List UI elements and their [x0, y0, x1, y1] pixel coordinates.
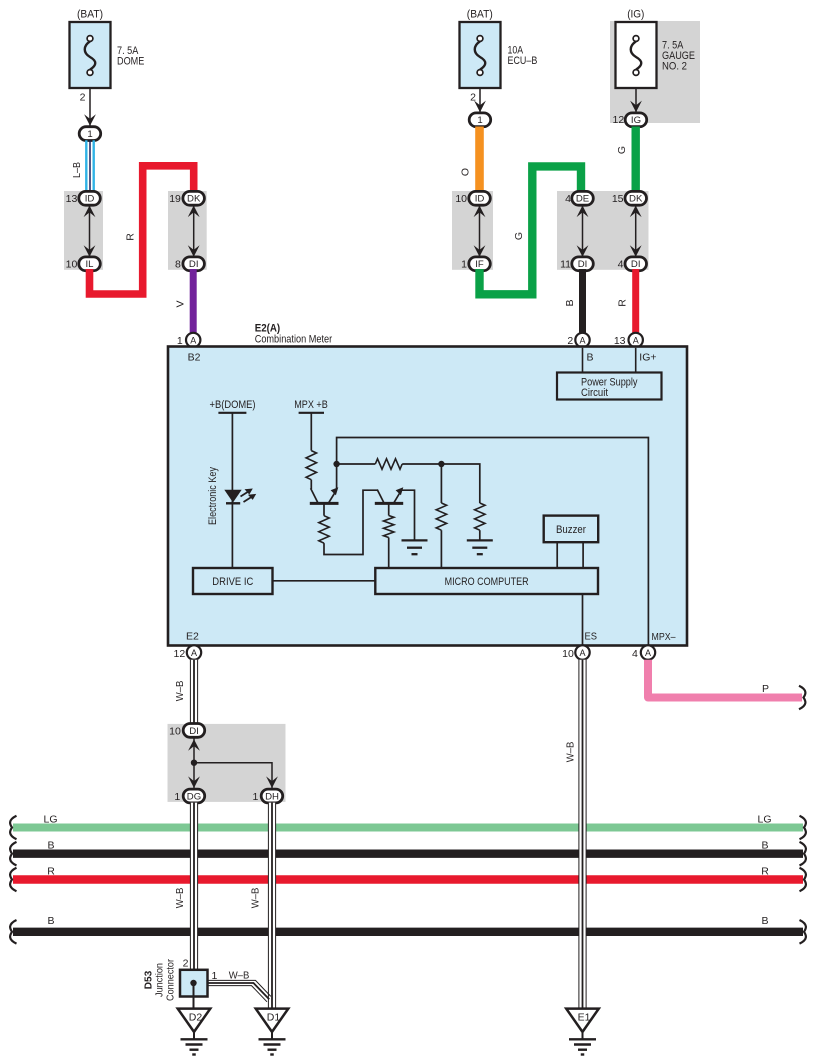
wire L-B from connector 1 to ID [71, 140, 94, 192]
svg-text:DE: DE [576, 194, 589, 205]
svg-text:R: R [125, 233, 137, 241]
wires buzzer to micro computer [557, 542, 583, 568]
svg-text:R: R [47, 865, 55, 877]
connector oval 1 (ECU-B circuit) [469, 113, 491, 127]
svg-text:DI: DI [631, 259, 641, 270]
wire ID to IL with arrows [84, 202, 96, 260]
power supply circuit box [557, 373, 662, 400]
arrow into connector 1 [474, 101, 486, 113]
transistor Q2 [375, 487, 404, 503]
connector ID pin 10 [455, 191, 490, 205]
wire V (violet) from DI to pin 1 [175, 269, 194, 334]
pin 10 A [562, 645, 590, 660]
wire DK to DI with arrows [630, 202, 642, 260]
svg-text:MICRO COMPUTER: MICRO COMPUTER [445, 576, 529, 588]
svg-text:A: A [579, 335, 585, 345]
connector oval IG pin 12 [613, 113, 647, 127]
node MPX +B [294, 399, 328, 413]
wire N1 up and right to MPX- (long) [337, 438, 649, 646]
wire P (pink) from pin 4 MPX- [648, 660, 805, 710]
svg-text:A: A [191, 648, 197, 658]
svg-text:R: R [617, 299, 629, 307]
svg-text:12: 12 [174, 648, 186, 660]
svg-text:(BAT): (BAT) [467, 9, 493, 21]
wire W-B from D53 pin 1 to D1 [208, 969, 271, 1002]
svg-text:2: 2 [183, 958, 189, 970]
bus wire B (upper) [10, 839, 806, 865]
svg-text:B: B [587, 351, 594, 363]
ground E1 [566, 1009, 599, 1055]
svg-text:Combination Meter: Combination Meter [255, 334, 333, 346]
connector DE pin 4 [565, 191, 593, 205]
svg-text:A: A [190, 335, 196, 345]
wire D53 to D2 ground [193, 983, 195, 1009]
wire dot to DH with arrow [194, 763, 278, 789]
svg-text:D2: D2 [189, 1012, 203, 1024]
wire fuse to connector 1 [479, 88, 481, 113]
connector DI pin 4 [618, 257, 647, 271]
wire B (black) from DI to pin 2 [564, 269, 583, 334]
svg-text:B: B [47, 915, 54, 927]
wire G (green) from IF to DE [480, 166, 582, 294]
wire W-B from pin 10 ES to E1 ground [565, 660, 587, 1009]
junction block DE/DI DK/DI (gray) [557, 191, 649, 270]
transistor Q1 [310, 480, 339, 504]
wire R (red) from IL to DK [90, 166, 194, 294]
svg-text:E1: E1 [578, 1012, 591, 1024]
svg-text:DRIVE IC: DRIVE IC [212, 576, 253, 588]
wire O (orange) from connector 1 to ID [460, 127, 480, 193]
arrow into connector 1 [84, 114, 96, 126]
svg-text:A: A [633, 335, 639, 345]
connector DK pin 19 [169, 191, 204, 205]
svg-text:1: 1 [87, 129, 92, 140]
svg-text:(BAT): (BAT) [77, 9, 103, 21]
svg-text:Buzzer: Buzzer [556, 524, 586, 536]
ground D1 [256, 1009, 289, 1055]
wire dot to DG with arrow [188, 763, 200, 789]
wire drive IC to micro computer [273, 580, 376, 582]
wire R6 to micro computer [388, 538, 390, 569]
svg-text:L–B: L–B [71, 162, 83, 178]
ground D2 [178, 1009, 211, 1055]
svg-text:LG: LG [757, 813, 771, 825]
pin 1 A of combination meter [177, 333, 201, 347]
pin 13 A of combination meter [614, 333, 643, 347]
wire R3 to micro computer [440, 530, 442, 568]
resistor R5 (Q1 base) [319, 503, 329, 543]
connector DH pin 1 [252, 789, 282, 803]
connector IL pin 10 [66, 257, 101, 271]
resistor R1 [306, 451, 316, 480]
wire N2 to right resistor R4 [441, 464, 479, 503]
resistor R2 [375, 459, 402, 469]
connector DG pin 1 [174, 789, 204, 803]
svg-text:4: 4 [632, 648, 638, 660]
wire N1 to resistor R2 [337, 463, 376, 465]
gray block behind GAUGE fuse [610, 21, 700, 123]
svg-text:W–B: W–B [174, 888, 186, 909]
wire fuse to connector 1 [89, 88, 91, 127]
svg-text:4: 4 [565, 193, 571, 205]
svg-text:10: 10 [562, 648, 574, 660]
svg-text:12: 12 [613, 114, 625, 126]
LED electronic key indicator [207, 466, 256, 525]
svg-text:R: R [761, 865, 769, 877]
wire Q1 emitter to node N1 [336, 464, 338, 490]
connector DK pin 15 [612, 191, 647, 205]
resistor R3 [436, 503, 446, 530]
wire N2 down to R3 [440, 464, 442, 503]
pin 12 A [174, 645, 202, 660]
connector oval 1 (DOME circuit) [79, 127, 101, 141]
svg-text:B: B [47, 839, 54, 851]
svg-text:E2(A): E2(A) [255, 322, 281, 334]
node N1 junction [333, 461, 339, 467]
svg-text:W–B: W–B [174, 681, 186, 702]
svg-text:DI: DI [189, 259, 199, 270]
fuse 7.5A GAUGE NO.2 (IG) [616, 9, 696, 89]
junction dot D [191, 760, 197, 766]
svg-text:4: 4 [618, 258, 624, 270]
svg-text:A: A [579, 648, 585, 658]
svg-text:ID: ID [85, 194, 95, 205]
wire W-B from pin 12 to DI [174, 660, 198, 725]
wire R (red) from DI to pin 13 [617, 269, 636, 334]
wire MPX+B to resistor [310, 413, 312, 451]
svg-text:NO. 2: NO. 2 [662, 61, 687, 73]
svg-text:LG: LG [43, 813, 57, 825]
wire DE to DI with arrows [577, 202, 589, 260]
svg-text:E2: E2 [186, 630, 199, 642]
ground (internal, left) [402, 540, 428, 554]
svg-text:B2: B2 [188, 351, 201, 363]
svg-text:DI: DI [189, 726, 199, 737]
svg-text:B: B [761, 915, 768, 927]
svg-text:B: B [564, 299, 576, 306]
svg-text:DG: DG [187, 791, 201, 802]
svg-text:DK: DK [629, 194, 643, 205]
svg-text:2: 2 [80, 91, 86, 103]
svg-text:1: 1 [477, 115, 482, 126]
drive IC U1 [193, 568, 273, 594]
wire micro computer to pin ES [582, 594, 584, 645]
wire G (green) from IG to DK [616, 127, 636, 193]
svg-text:(IG): (IG) [627, 9, 644, 21]
node +B(DOME) [210, 399, 256, 413]
svg-text:IG: IG [631, 115, 641, 126]
buzzer [544, 516, 599, 543]
svg-text:DH: DH [265, 791, 279, 802]
svg-text:11: 11 [560, 258, 571, 270]
svg-text:13: 13 [66, 193, 78, 205]
wire Q2 emitter to ground [402, 490, 415, 540]
svg-text:15: 15 [612, 193, 624, 205]
node N2 junction [438, 461, 444, 467]
svg-text:10: 10 [169, 725, 181, 737]
svg-text:ECU–B: ECU–B [508, 55, 538, 67]
wire +B(DOME) to DRIVE IC [231, 413, 233, 568]
wire R4 to ground [479, 530, 481, 540]
svg-text:O: O [460, 168, 472, 176]
wire W-B from DG to D53 [174, 803, 198, 970]
svg-text:W–B: W–B [565, 742, 577, 763]
svg-text:MPX–: MPX– [652, 631, 676, 643]
wire pin2 to power supply [582, 348, 584, 373]
micro computer U2 [375, 568, 598, 594]
svg-text:IG+: IG+ [639, 351, 656, 363]
svg-text:B: B [761, 839, 768, 851]
connector DI pin 11 [560, 257, 593, 271]
svg-text:1: 1 [461, 258, 467, 270]
svg-text:IL: IL [85, 259, 94, 270]
connector DI pin 8 [175, 257, 204, 271]
wire W-B from DH to D1 ground [250, 803, 276, 1009]
bus wire B (lower) [10, 915, 806, 943]
wire fuse to connector IG [635, 88, 637, 113]
bus wire LG [10, 813, 806, 839]
junction block DK/DI (gray) [168, 191, 207, 270]
junction block ID/IL (gray) [64, 191, 103, 270]
svg-text:Connector: Connector [165, 959, 177, 1001]
svg-text:19: 19 [169, 193, 181, 205]
wire R2 to node N2 [402, 463, 441, 465]
svg-text:G: G [616, 146, 628, 154]
ground (internal, right) [467, 540, 493, 554]
svg-text:P: P [762, 683, 769, 695]
svg-text:8: 8 [175, 258, 181, 270]
svg-text:DI: DI [578, 259, 588, 270]
svg-text:G: G [513, 232, 525, 240]
junction block DI/DG/DH (gray) [168, 724, 286, 802]
svg-text:W–B: W–B [250, 888, 262, 909]
svg-text:1: 1 [174, 791, 180, 803]
svg-text:1: 1 [252, 791, 258, 803]
svg-text:D1: D1 [267, 1012, 281, 1024]
fuse 7.5A DOME (BAT) [70, 9, 145, 89]
svg-text:V: V [175, 300, 187, 307]
connector IF pin 1 [461, 257, 490, 271]
svg-text:10: 10 [66, 258, 78, 270]
wire DI to junction dot with arrow [188, 734, 200, 763]
svg-text:IF: IF [475, 259, 484, 270]
resistor R6 (Q2 base) [384, 503, 394, 537]
svg-text:ID: ID [475, 194, 485, 205]
svg-text:DK: DK [187, 194, 201, 205]
wire ID to IF with arrows [474, 202, 486, 260]
svg-text:10: 10 [455, 193, 467, 205]
wire pin13 to power supply [635, 348, 637, 373]
svg-text:MPX +B: MPX +B [294, 399, 328, 411]
connector DI pin 10 [169, 724, 205, 738]
svg-text:Electronic Key: Electronic Key [207, 466, 219, 525]
resistor R4 [475, 503, 485, 530]
junction block ID/IF (gray) [452, 191, 493, 270]
svg-text:+B(DOME): +B(DOME) [210, 399, 256, 411]
connector ID pin 13 [66, 191, 101, 205]
svg-text:A: A [645, 648, 651, 658]
combination meter E2(A) box [168, 322, 687, 645]
svg-text:W–B: W–B [229, 969, 250, 981]
bus wire R [10, 865, 806, 891]
junction connector D53 [143, 958, 218, 1002]
arrow into connector IG [630, 101, 642, 113]
wire R5 to Q2 collector [324, 490, 378, 554]
wire DK to DI with arrows [188, 202, 200, 260]
svg-text:ES: ES [585, 630, 598, 642]
fuse 10A ECU-B (BAT) [460, 9, 538, 89]
pin 4 A [632, 645, 655, 660]
pin 2 A of combination meter [567, 333, 589, 347]
svg-text:Circuit: Circuit [581, 387, 608, 399]
svg-text:DOME: DOME [117, 56, 144, 68]
